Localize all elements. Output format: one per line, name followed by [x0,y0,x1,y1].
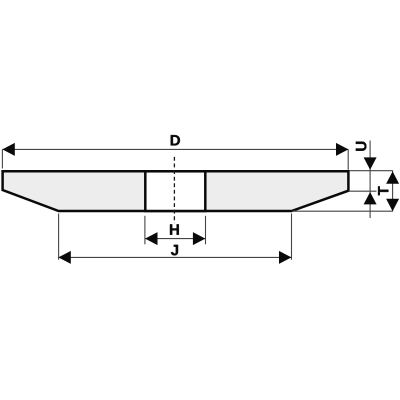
dimension line H [145,238,205,240]
label T (rotated) [378,186,388,195]
hub bore section [145,171,205,211]
bottom reference line (right) [292,210,393,212]
arrowhead D left [2,143,14,156]
centerline (dashed) [173,157,175,223]
rim bottom reference line (right) [349,190,377,192]
wheel body (tapered cross-section) [3,171,349,211]
arrowhead U up [364,192,377,204]
extension line D right [347,149,349,169]
label D [171,135,180,145]
arrowhead H left [145,232,157,245]
extension line D left [1,149,3,168]
dimension line T [392,171,394,212]
arrowhead J left [58,251,70,264]
arrowhead D right [336,143,348,156]
arrowhead U down [364,157,377,169]
dimension line J [58,256,291,258]
extension line H right [205,216,207,245]
extension line J left [58,214,60,260]
top edge reference line (right) [350,170,393,172]
dimension line U [369,141,371,219]
extension line H left [144,216,146,245]
dimension line D [2,148,348,150]
arrowhead J right [279,251,291,264]
extension line J right [291,214,293,260]
arrowhead T up [386,171,399,183]
label J [171,245,178,255]
label H [170,224,179,234]
label U (rotated) [356,142,366,151]
arrowhead T down [386,199,399,211]
arrowhead H right [193,232,205,245]
